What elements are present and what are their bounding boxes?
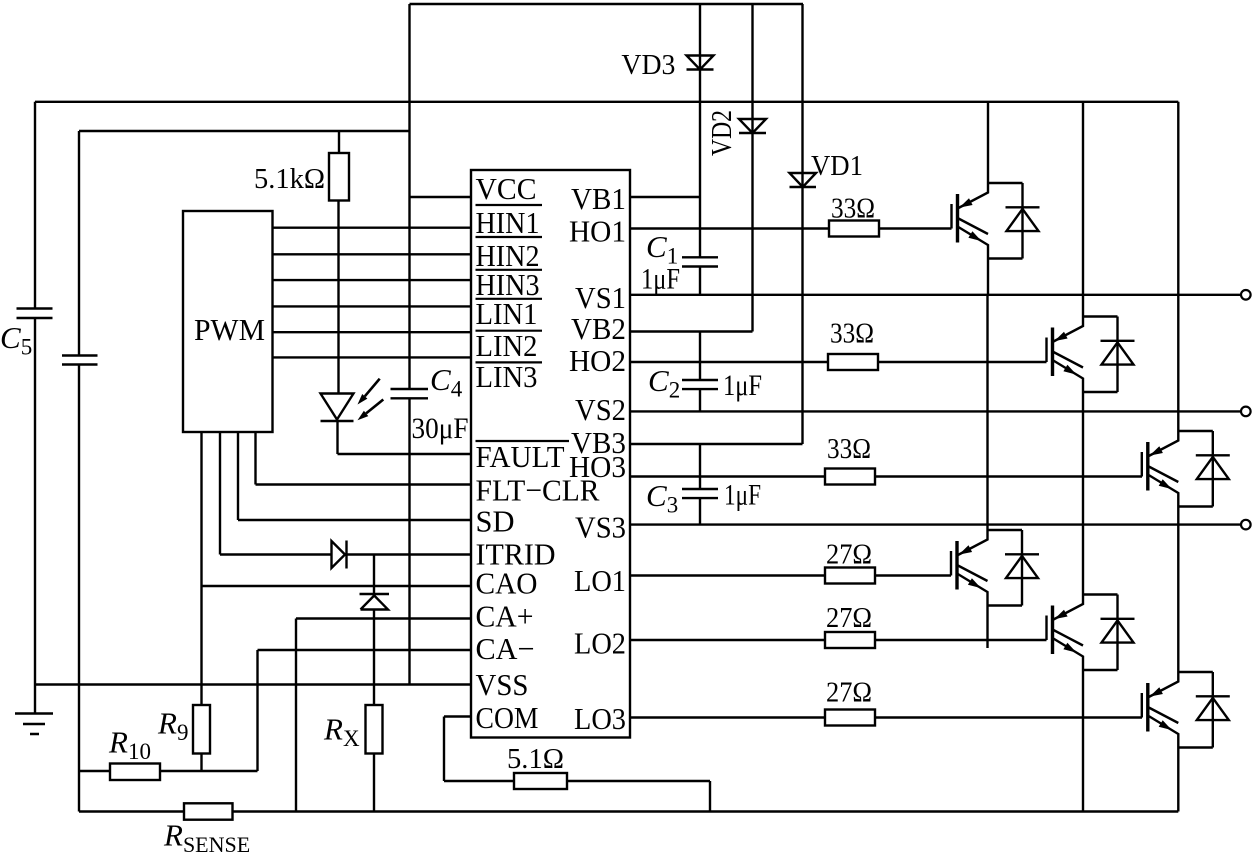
pin label HIN3 bbox=[476, 267, 543, 302]
diode DQ6 bbox=[1178, 672, 1230, 748]
svg-text:LO1: LO1 bbox=[574, 563, 626, 598]
wire HIN1 bbox=[273, 226, 472, 228]
svg-text:HO2: HO2 bbox=[569, 343, 626, 378]
wire LO2 gate bbox=[875, 639, 1047, 641]
ground bbox=[15, 714, 53, 735]
terminal phase A bbox=[1241, 290, 1251, 300]
capacitor C5 bbox=[17, 309, 53, 319]
LED D4 bbox=[321, 379, 384, 421]
transistor Q3 bbox=[1142, 431, 1179, 507]
wire C2 vertical bbox=[699, 332, 701, 412]
capacitor C3 bbox=[682, 489, 718, 498]
pin label SD bbox=[476, 504, 515, 539]
IC driver box bbox=[471, 170, 630, 738]
wire HO2 bbox=[630, 361, 828, 363]
resistor 5.1ohm bbox=[514, 773, 567, 789]
pin label VB3 bbox=[571, 425, 626, 460]
pin label HO2 bbox=[569, 343, 626, 378]
wire VD1 vertical bbox=[801, 4, 803, 444]
svg-text:VD3: VD3 bbox=[621, 49, 675, 81]
label R9 bbox=[157, 706, 188, 746]
pin label LIN1 bbox=[476, 296, 543, 331]
svg-text:5.1kΩ: 5.1kΩ bbox=[254, 163, 325, 195]
wire bus Q6 emitter bbox=[1177, 748, 1179, 812]
wire 5.1k to LED bbox=[337, 201, 339, 394]
label RSENSE bbox=[163, 818, 250, 853]
svg-text:LIN2: LIN2 bbox=[476, 328, 538, 363]
wire filter-cap branch vertical bbox=[78, 131, 80, 812]
svg-text:VB1: VB1 bbox=[571, 181, 626, 216]
svg-text:33Ω: 33Ω bbox=[830, 318, 874, 350]
pin label LIN3 bbox=[476, 359, 543, 394]
wire HO3 bbox=[630, 475, 825, 477]
wire clamp vertical bbox=[373, 555, 375, 706]
svg-text:HO1: HO1 bbox=[569, 214, 626, 249]
capacitor C1 bbox=[682, 257, 718, 266]
wire VS1 phase A bbox=[630, 294, 1241, 296]
resistor 5.1k bbox=[329, 153, 349, 201]
label C3 bbox=[646, 478, 678, 518]
transistor Q4 bbox=[951, 530, 988, 606]
wire LO3 gate bbox=[875, 716, 1142, 718]
wire bus Q2 emitter bbox=[1082, 392, 1084, 411]
wire CA- bbox=[258, 650, 472, 771]
wire VB2 bbox=[630, 330, 753, 332]
label C2 value bbox=[723, 369, 762, 402]
wire bus Q3 emitter bbox=[1177, 507, 1179, 525]
label C2 bbox=[648, 363, 680, 403]
wire 5.1ohm right bbox=[567, 781, 710, 812]
pin label HO1 bbox=[569, 214, 626, 249]
pin label HIN1 bbox=[476, 205, 543, 240]
svg-text:PWM: PWM bbox=[194, 312, 265, 347]
svg-text:HIN1: HIN1 bbox=[476, 205, 540, 240]
transistor Q6 bbox=[1142, 672, 1179, 748]
svg-text:LO2: LO2 bbox=[574, 626, 626, 661]
wire bus Q5 emitter bbox=[1082, 670, 1084, 812]
wire LED to FAULT bbox=[338, 421, 472, 454]
wire LIN2 bbox=[273, 331, 472, 333]
wire ITRID right bbox=[347, 553, 472, 555]
svg-text:1μF: 1μF bbox=[723, 369, 762, 402]
wire VB1 bbox=[630, 196, 700, 198]
resistor RSENSE bbox=[184, 803, 233, 819]
pin label HIN2 bbox=[476, 237, 543, 273]
wire CA+ bbox=[296, 619, 471, 812]
svg-text:VCC: VCC bbox=[476, 171, 537, 206]
wire bus Q3 collector bbox=[1177, 102, 1179, 431]
diode DQ1 bbox=[988, 183, 1040, 259]
pin label COM bbox=[476, 700, 539, 735]
wire VSS bbox=[35, 683, 471, 685]
pin label LO2 bbox=[574, 626, 626, 661]
resistor R9 bbox=[193, 705, 210, 754]
wire HO1 gate bbox=[879, 227, 952, 229]
wire VS3 phase C bbox=[630, 523, 1241, 525]
label PWM bbox=[194, 312, 265, 347]
pin label VSS bbox=[476, 667, 529, 702]
resistor R10 bbox=[110, 764, 160, 781]
diode DQ3 bbox=[1178, 431, 1230, 507]
diode VD3 bbox=[687, 56, 714, 70]
wire C1 bottom bbox=[699, 267, 701, 295]
wire FLT-CLR bbox=[256, 432, 472, 485]
wire SD bbox=[238, 432, 471, 520]
transistor Q1 bbox=[952, 183, 989, 259]
resistor 27ohm-3 bbox=[825, 710, 875, 726]
pin label VCC bbox=[476, 171, 537, 206]
pin label VB1 bbox=[571, 181, 626, 216]
svg-text:LO3: LO3 bbox=[574, 701, 626, 736]
pin label CA+ bbox=[476, 599, 534, 634]
resistor 33ohm-1 bbox=[829, 221, 879, 237]
label C3 value bbox=[724, 479, 761, 512]
label 33ohm-3 bbox=[827, 433, 871, 465]
pin label LIN2 bbox=[476, 328, 543, 363]
pin label HO3 bbox=[569, 449, 626, 484]
diode VD2 bbox=[739, 119, 766, 133]
capacitor filter bbox=[62, 356, 98, 365]
wire LO1 bbox=[630, 574, 825, 576]
wire HIN2 bbox=[273, 253, 472, 255]
label RX bbox=[323, 712, 360, 752]
svg-text:COM: COM bbox=[476, 700, 539, 735]
wire R10 line bbox=[79, 770, 258, 772]
pin label VS3 bbox=[575, 510, 626, 545]
wire LO3 bbox=[630, 716, 825, 718]
wire CAO / R9 branch bbox=[202, 432, 472, 705]
transistor Q2 bbox=[1047, 317, 1084, 393]
diode D5 (ITRID) bbox=[332, 541, 347, 569]
svg-text:VS2: VS2 bbox=[575, 392, 626, 427]
pin label VB2 bbox=[571, 311, 626, 346]
capacitor C4 bbox=[391, 389, 429, 398]
resistor 33ohm-2 bbox=[828, 354, 878, 370]
diode DQ4 bbox=[988, 530, 1040, 606]
wire HO3 gate bbox=[875, 475, 1142, 477]
label C1 value bbox=[641, 263, 680, 296]
label C5 bbox=[0, 320, 32, 360]
pin label CAO bbox=[476, 566, 538, 601]
svg-text:HO3: HO3 bbox=[569, 449, 626, 484]
label C1 bbox=[646, 229, 678, 269]
wire R9 bottom bbox=[200, 754, 202, 772]
svg-text:VS1: VS1 bbox=[575, 280, 626, 315]
svg-text:FAULT: FAULT bbox=[476, 439, 565, 474]
wire RX bottom bbox=[373, 754, 375, 812]
wire ITRID left bbox=[220, 432, 332, 555]
svg-text:CA−: CA− bbox=[476, 631, 535, 666]
wire bus Q4 collector bbox=[986, 295, 988, 530]
wire 5.1k top bbox=[338, 131, 340, 153]
label VD1 bbox=[811, 150, 863, 182]
wire VCC top rail bbox=[410, 3, 804, 5]
wire C3 vertical bbox=[699, 444, 701, 525]
wire LO1 gate bbox=[875, 574, 951, 576]
pin label ITRID bbox=[476, 537, 556, 572]
label 33ohm-2 bbox=[830, 318, 874, 350]
wire bus Q6 collector bbox=[1177, 525, 1179, 672]
label 27ohm-3 bbox=[826, 677, 872, 709]
pin label FAULT bbox=[476, 439, 570, 474]
svg-text:VB2: VB2 bbox=[571, 311, 626, 346]
wire bus Q2 collector bbox=[1082, 102, 1084, 317]
resistor 27ohm-2 bbox=[825, 632, 875, 648]
svg-text:27Ω: 27Ω bbox=[826, 602, 872, 634]
label 5.1ohm bbox=[507, 743, 564, 775]
terminal phase C bbox=[1241, 520, 1251, 530]
label 27ohm-2 bbox=[826, 602, 872, 634]
pin label LO1 bbox=[574, 563, 626, 598]
svg-text:30μF: 30μF bbox=[412, 412, 469, 445]
resistor 33ohm-3 bbox=[825, 469, 875, 485]
pin label VS2 bbox=[575, 392, 626, 427]
svg-text:27Ω: 27Ω bbox=[826, 539, 872, 571]
diode DQ5 bbox=[1083, 595, 1135, 671]
svg-text:VS3: VS3 bbox=[575, 510, 626, 545]
svg-text:5.1Ω: 5.1Ω bbox=[507, 743, 564, 775]
svg-text:LIN1: LIN1 bbox=[476, 296, 538, 331]
svg-text:CA+: CA+ bbox=[476, 599, 534, 634]
pin label VS1 bbox=[575, 280, 626, 315]
diode VD1 bbox=[790, 173, 817, 187]
wire VD3 vertical bbox=[699, 4, 701, 257]
block PWM bbox=[183, 211, 273, 432]
svg-text:VD1: VD1 bbox=[811, 150, 863, 182]
pin label LO3 bbox=[574, 701, 626, 736]
terminal phase B bbox=[1241, 407, 1251, 417]
pin label FLT-CLR bbox=[476, 473, 600, 508]
label VD3 bbox=[621, 49, 675, 81]
transistor Q5 bbox=[1047, 595, 1084, 671]
wire bus Q1 collector bbox=[987, 102, 989, 183]
diode DQ2 bbox=[1083, 317, 1135, 393]
svg-text:CAO: CAO bbox=[476, 566, 538, 601]
wire VS2 phase B bbox=[630, 410, 1241, 412]
svg-text:SD: SD bbox=[476, 504, 515, 539]
svg-text:1μF: 1μF bbox=[724, 479, 761, 512]
wire bottom rail bbox=[233, 810, 1179, 812]
wire VD2 vertical bbox=[751, 4, 753, 332]
wire VCC sub-rail bbox=[79, 130, 410, 132]
resistor RX bbox=[366, 705, 383, 754]
wire LIN1 bbox=[273, 305, 472, 307]
label R10 bbox=[108, 725, 151, 765]
capacitor C2 bbox=[682, 380, 718, 389]
wire bottom rail left bbox=[79, 810, 184, 812]
label 5.1kohm bbox=[254, 163, 325, 195]
pin label CA- bbox=[476, 631, 535, 666]
label 33ohm-1 bbox=[831, 193, 875, 225]
wire bus Q4 emitter bbox=[986, 606, 988, 649]
wire VCC vertical (left edge, through C4) bbox=[408, 4, 410, 685]
svg-text:VSS: VSS bbox=[476, 667, 529, 702]
wire C5 branch vertical bbox=[34, 102, 36, 714]
svg-text:VD2: VD2 bbox=[706, 110, 738, 156]
wire VB3 bbox=[630, 443, 803, 445]
svg-text:LIN3: LIN3 bbox=[476, 359, 538, 394]
svg-text:1μF: 1μF bbox=[641, 263, 680, 296]
label 27ohm-1 bbox=[826, 539, 872, 571]
wire HO1 bbox=[630, 227, 829, 229]
label VD2 bbox=[706, 110, 738, 156]
wire HO2 gate bbox=[878, 361, 1047, 363]
diode D6 (clamp) bbox=[360, 594, 390, 610]
resistor 27ohm-1 bbox=[825, 568, 875, 584]
label C4 bbox=[430, 362, 463, 402]
wire COM bbox=[444, 717, 514, 782]
wire LIN3 bbox=[273, 356, 472, 358]
label 30uF bbox=[412, 412, 469, 445]
wire DC+ bus rail bbox=[35, 101, 1178, 103]
wire VCC pin bbox=[410, 196, 472, 198]
svg-text:33Ω: 33Ω bbox=[831, 193, 875, 225]
svg-text:33Ω: 33Ω bbox=[827, 433, 871, 465]
wire bus Q1 emitter bbox=[987, 259, 989, 295]
wire HIN3 bbox=[273, 279, 472, 281]
wire bus Q5 collector bbox=[1082, 411, 1084, 594]
wire LO2 bbox=[630, 639, 825, 641]
svg-text:27Ω: 27Ω bbox=[826, 677, 872, 709]
